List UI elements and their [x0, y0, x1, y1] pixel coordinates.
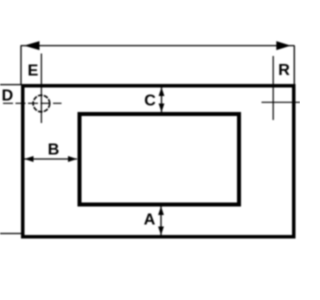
svg-text:R: R	[278, 62, 290, 79]
top dimension line	[21, 45, 295, 47]
arrow E (long arrowhead pointing left at panel edge)	[24, 41, 40, 50]
left hole centerline horizontal	[3, 102, 62, 104]
arrow B-right	[68, 156, 77, 162]
svg-text:A: A	[144, 212, 156, 229]
A dimension line	[160, 207, 162, 236]
cutout rectangle	[80, 114, 240, 205]
svg-text:E: E	[28, 63, 39, 80]
left extension line (panel left edge)	[20, 46, 22, 85]
B dimension line	[25, 158, 78, 160]
svg-text:D: D	[2, 87, 14, 104]
right extension line (panel right edge)	[293, 46, 295, 85]
svg-text:B: B	[48, 142, 60, 159]
panel outline	[23, 86, 294, 237]
arrow A-up	[158, 207, 164, 216]
left hole centerline vertical	[40, 54, 42, 124]
arrow R (long arrowhead pointing right at panel edge)	[276, 41, 291, 50]
D leader line bottom	[0, 233, 22, 235]
arrow C-up	[159, 88, 165, 97]
C dimension line	[161, 88, 163, 113]
arrow A-down	[158, 227, 164, 236]
arrow B-left	[25, 156, 34, 162]
left hole circle	[33, 95, 50, 112]
D leader line top	[0, 84, 21, 86]
svg-text:C: C	[144, 93, 156, 110]
arrow C-down	[159, 104, 165, 113]
right hole centerline horizontal	[262, 101, 301, 103]
right hole centerline vertical	[272, 56, 274, 120]
